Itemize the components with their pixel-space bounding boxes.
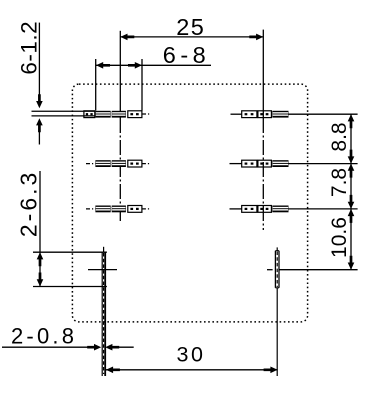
svg-text:30: 30 [177,342,206,366]
svg-text:2-6.3: 2-6.3 [16,170,42,237]
svg-text:7.8: 7.8 [328,168,351,197]
svg-text:2-0.8: 2-0.8 [11,324,77,349]
svg-text:6-1.2: 6-1.2 [17,21,42,75]
svg-text:25: 25 [176,14,205,40]
svg-text:10.6: 10.6 [328,217,351,258]
svg-text:6-8: 6-8 [163,42,210,68]
svg-text:8.8: 8.8 [328,122,351,151]
